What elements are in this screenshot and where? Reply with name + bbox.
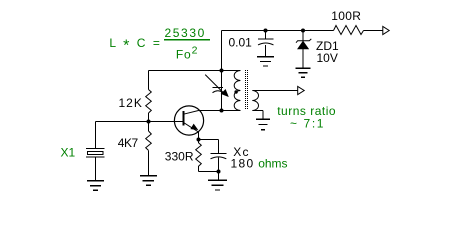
svg-text:100R: 100R — [331, 9, 361, 23]
svg-text:0.01: 0.01 — [229, 35, 253, 49]
svg-text:ohms: ohms — [258, 156, 287, 170]
svg-text:25330: 25330 — [165, 26, 206, 40]
svg-text:Fo: Fo — [176, 47, 192, 61]
svg-text:2: 2 — [192, 45, 198, 57]
svg-text:~ 7:1: ~ 7:1 — [290, 117, 325, 131]
svg-text:4K7: 4K7 — [118, 136, 139, 150]
svg-text:X1: X1 — [61, 146, 76, 160]
svg-text:180: 180 — [231, 157, 255, 171]
svg-text:330R: 330R — [165, 150, 194, 164]
svg-text:10V: 10V — [317, 51, 338, 65]
svg-text:12K: 12K — [119, 96, 143, 110]
